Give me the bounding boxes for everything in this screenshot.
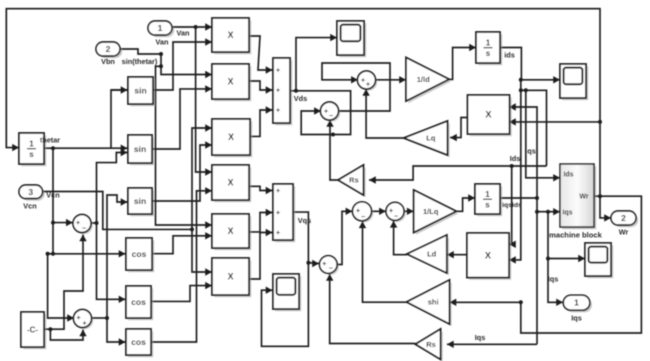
svg-text:−: −: [394, 214, 398, 221]
svg-text:qs: qs: [527, 147, 536, 156]
svg-text:+: +: [276, 210, 280, 217]
svg-text:sin(thetar): sin(thetar): [122, 57, 158, 66]
svg-text:+: +: [356, 208, 360, 215]
svg-text:+: +: [322, 261, 326, 268]
svg-text:Vcn: Vcn: [46, 191, 59, 200]
svg-text:−: −: [82, 226, 86, 233]
svg-text:Iqs: Iqs: [562, 210, 572, 217]
svg-text:+: +: [276, 188, 280, 195]
svg-text:2: 2: [621, 213, 626, 223]
svg-text:shi: shi: [428, 298, 439, 307]
svg-text:Rs: Rs: [349, 176, 359, 185]
svg-text:cos: cos: [131, 337, 146, 347]
svg-text:X: X: [228, 77, 234, 87]
svg-text:Wr: Wr: [619, 228, 629, 237]
svg-text:Iqs: Iqs: [475, 333, 486, 342]
svg-text:Vqs: Vqs: [298, 216, 311, 225]
svg-text:machine block: machine block: [549, 231, 603, 240]
svg-text:1: 1: [29, 139, 34, 148]
svg-text:1: 1: [158, 23, 163, 33]
svg-text:X: X: [485, 110, 492, 120]
svg-text:X: X: [228, 178, 234, 188]
svg-text:iqsids: iqsids: [502, 202, 522, 209]
svg-text:1: 1: [574, 298, 579, 308]
svg-text:X: X: [228, 226, 234, 236]
svg-text:s: s: [485, 201, 490, 210]
svg-text:X: X: [485, 251, 492, 261]
svg-text:+: +: [82, 321, 86, 328]
svg-text:−: −: [361, 214, 365, 221]
svg-text:+: +: [276, 230, 280, 237]
svg-text:−: −: [329, 113, 333, 120]
svg-text:ids: ids: [504, 51, 515, 60]
svg-text:Lq: Lq: [426, 134, 436, 143]
svg-text:cos: cos: [131, 297, 146, 307]
svg-text:Ld: Ld: [427, 250, 437, 259]
svg-text:Rs: Rs: [426, 340, 436, 349]
svg-text:Wr: Wr: [579, 194, 588, 201]
svg-text:Ids: Ids: [563, 172, 573, 179]
svg-text:+: +: [76, 315, 80, 322]
svg-text:−: −: [329, 266, 333, 273]
svg-text:X: X: [228, 30, 234, 40]
svg-text:+: +: [76, 220, 80, 227]
svg-text:+: +: [389, 208, 393, 215]
svg-text:Van: Van: [177, 29, 190, 38]
svg-text:Vds: Vds: [294, 94, 307, 103]
svg-text:Iqs: Iqs: [571, 314, 582, 323]
svg-text:2: 2: [106, 44, 111, 54]
svg-text:Ids: Ids: [510, 154, 521, 163]
svg-text:Vcn: Vcn: [23, 202, 36, 211]
svg-text:X: X: [228, 272, 234, 282]
svg-text:+: +: [361, 78, 365, 85]
svg-text:sin: sin: [134, 144, 146, 154]
svg-text:1: 1: [486, 38, 491, 47]
svg-text:Vbn: Vbn: [101, 57, 115, 66]
svg-text:sin: sin: [134, 196, 146, 206]
svg-text:1: 1: [485, 190, 490, 199]
svg-text:Van: Van: [156, 38, 169, 47]
svg-text:+: +: [276, 68, 280, 75]
svg-text:+: +: [366, 82, 370, 89]
svg-text:1/ld: 1/ld: [417, 75, 430, 84]
svg-text:+: +: [276, 108, 280, 115]
svg-text:Iqs: Iqs: [548, 275, 559, 284]
svg-text:s: s: [29, 150, 34, 159]
svg-text:-C-: -C-: [27, 325, 38, 334]
svg-text:X: X: [228, 132, 234, 142]
svg-text:3: 3: [28, 187, 33, 197]
svg-text:thetar: thetar: [40, 136, 60, 145]
svg-text:1/Lq: 1/Lq: [423, 207, 439, 216]
svg-text:sin: sin: [134, 85, 146, 95]
svg-text:+: +: [324, 109, 328, 116]
svg-text:+: +: [276, 88, 280, 95]
svg-text:cos: cos: [132, 249, 147, 259]
svg-text:s: s: [486, 49, 491, 58]
